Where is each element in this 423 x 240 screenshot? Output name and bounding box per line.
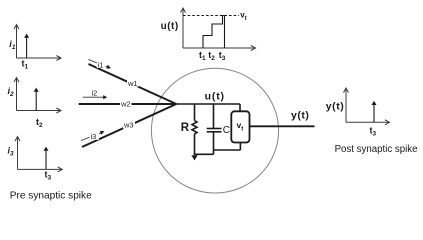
svg-text:y(t): y(t): [291, 110, 309, 122]
svg-text:w3: w3: [123, 121, 134, 130]
svg-text:Post synaptic spike: Post synaptic spike: [335, 144, 418, 155]
svg-text:t2: t2: [208, 50, 215, 62]
svg-text:i2: i2: [92, 89, 98, 98]
svg-text:y(t): y(t): [326, 100, 345, 112]
svg-text:i3: i3: [91, 132, 97, 141]
svg-text:w1: w1: [127, 79, 138, 88]
svg-text:R: R: [181, 122, 190, 134]
svg-text:t3: t3: [370, 126, 377, 138]
svg-text:C: C: [223, 125, 230, 136]
svg-text:i1: i1: [98, 61, 104, 70]
svg-text:t3: t3: [219, 50, 226, 62]
svg-text:w2: w2: [120, 99, 131, 108]
svg-text:t1: t1: [199, 50, 206, 62]
svg-text:t2: t2: [36, 117, 43, 129]
svg-text:vt: vt: [240, 10, 246, 21]
svg-text:i3: i3: [8, 146, 15, 158]
svg-text:i2: i2: [8, 86, 15, 98]
svg-text:t3: t3: [45, 170, 52, 182]
svg-text:u(t): u(t): [205, 91, 225, 103]
svg-text:t1: t1: [22, 59, 29, 71]
svg-text:i1: i1: [9, 39, 16, 51]
svg-text:Pre synaptic spike: Pre synaptic spike: [10, 191, 92, 202]
svg-text:u(t): u(t): [161, 21, 179, 32]
